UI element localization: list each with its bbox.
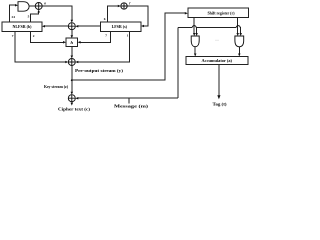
arrow into X4 right	[75, 61, 78, 64]
wire hop arc gate1	[192, 26, 196, 28]
NLFSR box	[2, 22, 42, 32]
xor X1	[35, 3, 42, 10]
svg-text:LFSR (s): LFSR (s)	[112, 24, 128, 29]
svg-text:NLFSR (b): NLFSR (b)	[12, 24, 32, 29]
arrow r into gate2	[236, 33, 239, 36]
xor X2	[68, 23, 75, 30]
arrow into h left	[63, 41, 66, 44]
wire lfsr bottom tap to h right	[80, 31, 110, 42]
arrow X2 right (s0 in)	[75, 25, 78, 28]
wire accumulator out	[218, 65, 220, 96]
arrow X2 top down	[71, 20, 74, 23]
svg-text:24: 24	[12, 15, 16, 19]
LFSR box	[101, 22, 141, 32]
svg-text:Shift register (r): Shift register (r)	[208, 11, 236, 16]
and gate G1	[18, 2, 29, 12]
svg-text:Key stream (z): Key stream (z)	[44, 84, 69, 89]
arrow into NLFSR right	[42, 25, 45, 28]
arrow m into gate1	[195, 33, 198, 36]
svg-text:7: 7	[12, 34, 14, 38]
svg-text:2: 2	[33, 34, 35, 38]
svg-text:5: 5	[28, 15, 30, 19]
wire message distribution segment 2	[196, 27, 236, 29]
arrow into h top	[71, 35, 74, 38]
wire X4 down to X5	[71, 66, 73, 93]
svg-text:6: 6	[104, 17, 106, 21]
svg-text:g: g	[43, 1, 46, 5]
wire r tap gate2	[237, 18, 239, 34]
wire message vertical	[177, 28, 179, 99]
arrow into shift register left	[185, 12, 188, 15]
wire r tap gate1	[193, 18, 195, 34]
svg-text:Accumulator (a): Accumulator (a)	[202, 58, 233, 63]
arrow X1 bottom up	[37, 10, 40, 13]
arrow r into gate1	[193, 33, 196, 36]
arrow into X4 top	[71, 56, 74, 59]
wire lfsr top tap to X3	[108, 6, 119, 22]
arrow into X3 left	[118, 5, 121, 8]
wire gate1 out	[194, 47, 196, 54]
xor X4	[68, 59, 75, 66]
arrow X5 out down	[71, 103, 74, 106]
wire nfsr tap 5 to X1 bottom	[31, 12, 39, 22]
wire and output to X1	[29, 5, 35, 7]
wire y branch to shift register	[72, 13, 186, 80]
wire lfsr bottom tap to X4 right	[78, 31, 130, 62]
wire X2 out to NLFSR	[45, 25, 68, 27]
arrow into h right	[78, 41, 81, 44]
wire m drop gate1	[196, 28, 198, 34]
arrow m into gate2	[239, 33, 242, 36]
wire X5 out	[71, 102, 73, 104]
arrow into X4 left	[65, 61, 68, 64]
junction y branch	[71, 79, 73, 81]
wire nfsr bottom tap to h left	[31, 31, 64, 42]
xor X5	[68, 95, 75, 102]
wire message distribution segment 3	[239, 28, 242, 34]
and gate A1 (down)	[191, 36, 199, 47]
svg-text:. .: . .	[216, 37, 219, 42]
accumulator box	[186, 57, 248, 65]
arrow tag down	[217, 95, 220, 99]
arrow into X5 right	[75, 97, 78, 100]
wire message distribution segment 1	[178, 27, 192, 29]
svg-text:1: 1	[127, 34, 129, 38]
wire message to X5	[78, 97, 178, 99]
svg-text:Pre-output stream (y): Pre-output stream (y)	[75, 68, 124, 73]
and gate A2 (down)	[235, 36, 244, 47]
wire nfsr top tap to and gate	[10, 5, 16, 22]
arrow gate2 into accumulator	[238, 54, 241, 57]
svg-text:Cipher text (c): Cipher text (c)	[58, 106, 91, 111]
wire nfsr bottom tap to X4	[15, 31, 66, 62]
wire hop arc gate2	[236, 26, 240, 28]
wire h out to X4 top	[71, 47, 73, 57]
wire X2 bottom to h	[71, 30, 73, 36]
wire s0 from LFSR left to X2	[78, 25, 101, 27]
wire gate2 out	[238, 47, 240, 54]
wire message label stub	[128, 98, 130, 103]
arrow into and gate G1	[15, 4, 18, 7]
arrow into LFSR right (feedback)	[141, 25, 144, 28]
arrow gate1 into accumulator	[194, 54, 197, 57]
svg-text:7: 7	[105, 34, 107, 38]
arrow into X5 top	[71, 92, 74, 95]
xor X3	[121, 3, 127, 9]
shift register box	[188, 8, 249, 17]
wire X3 out feedback to LFSR right	[127, 6, 148, 26]
h box	[66, 38, 78, 46]
wire X1 out to X2 top	[42, 6, 72, 20]
svg-text:Message (m): Message (m)	[114, 103, 149, 108]
svg-text:Tag (t): Tag (t)	[213, 102, 228, 107]
